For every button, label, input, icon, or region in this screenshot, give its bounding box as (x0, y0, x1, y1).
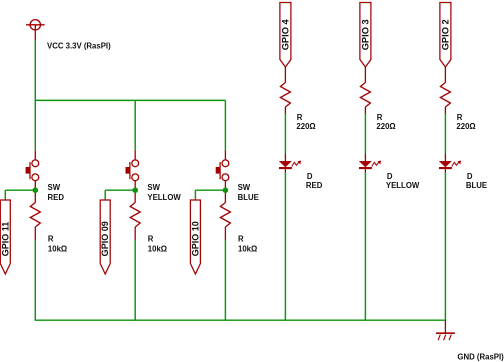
svg-text:D: D (387, 172, 393, 181)
svg-text:RED: RED (48, 193, 65, 202)
svg-text:GPIO 3: GPIO 3 (360, 19, 370, 50)
svg-text:R: R (377, 113, 383, 122)
svg-text:R: R (238, 234, 244, 243)
svg-text:10kΩ: 10kΩ (148, 244, 167, 253)
svg-text:D: D (467, 172, 473, 181)
svg-text:SW: SW (147, 183, 160, 192)
svg-text:220Ω: 220Ω (456, 122, 475, 131)
svg-text:R: R (148, 234, 154, 243)
svg-text:R: R (297, 113, 303, 122)
svg-text:GPIO 09: GPIO 09 (100, 221, 110, 256)
svg-text:GPIO 11: GPIO 11 (0, 222, 10, 257)
svg-text:YELLOW: YELLOW (386, 181, 420, 190)
svg-text:GPIO 10: GPIO 10 (190, 221, 200, 256)
svg-text:R: R (457, 113, 463, 122)
svg-text:GPIO 4: GPIO 4 (280, 18, 290, 50)
svg-text:BLUE: BLUE (466, 181, 487, 190)
svg-text:D: D (307, 172, 313, 181)
svg-text:RED: RED (306, 181, 323, 190)
svg-text:220Ω: 220Ω (376, 122, 395, 131)
svg-text:SW: SW (238, 183, 251, 192)
svg-text:VCC 3.3V (RasPI): VCC 3.3V (RasPI) (47, 42, 111, 51)
svg-text:R: R (48, 234, 54, 243)
svg-text:GPIO 2: GPIO 2 (440, 19, 450, 50)
svg-text:220Ω: 220Ω (296, 122, 315, 131)
svg-text:GND (RasPI): GND (RasPI) (457, 352, 504, 361)
svg-text:10kΩ: 10kΩ (238, 244, 257, 253)
svg-text:10kΩ: 10kΩ (48, 244, 67, 253)
svg-text:BLUE: BLUE (238, 193, 259, 202)
svg-text:SW: SW (48, 183, 61, 192)
svg-text:YELLOW: YELLOW (147, 193, 181, 202)
